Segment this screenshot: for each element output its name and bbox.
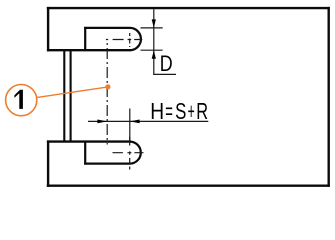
workpiece sheet left line	[63, 51, 65, 142]
extension line top (slot top edge extended)	[141, 27, 163, 29]
svg-text:+: +	[188, 98, 195, 124]
top plate left edge	[47, 7, 49, 51]
balloon digit 1	[14, 90, 23, 109]
arrow left at slot center extension	[130, 120, 140, 124]
dimension H horizontal line	[88, 120, 208, 122]
weld axis center line	[106, 40, 108, 145]
svg-text:H: H	[150, 98, 164, 124]
bottom plate top edge	[47, 140, 131, 142]
bottom plate bottom edge	[47, 184, 330, 186]
top plate top edge	[47, 7, 330, 9]
top plate bottom edge	[47, 49, 131, 51]
bottom slot horizontal center line	[113, 152, 145, 154]
right edge of C-frame	[328, 7, 330, 187]
bottom slot vertical center line	[129, 137, 131, 170]
bottom slot left edge	[84, 142, 86, 165]
leader end dot	[105, 84, 110, 89]
svg-text:R: R	[196, 100, 208, 125]
bottom slot outline	[84, 142, 141, 164]
label H=S+R	[150, 98, 208, 125]
workpiece sheet right line	[70, 51, 72, 142]
leader line	[37, 87, 108, 98]
arrow down at D top	[152, 19, 156, 28]
svg-text:S: S	[175, 100, 186, 125]
extension line bottom (plate bottom edge extended)	[141, 49, 163, 51]
top slot vertical center mark	[129, 33, 131, 47]
extension line for H at slot center	[129, 109, 131, 141]
bottom plate left edge	[47, 140, 49, 187]
top slot outline	[84, 28, 141, 50]
top slot horizontal center line	[106, 39, 142, 41]
dimension D vertical line	[153, 9, 155, 74]
arrow right at weld axis	[97, 120, 107, 124]
svg-text:=: =	[165, 99, 173, 125]
svg-text:D: D	[160, 52, 173, 76]
top slot left edge	[84, 27, 86, 50]
arrow up at D bottom	[152, 50, 156, 59]
dimension D shoulder line	[153, 73, 176, 75]
balloon circle 1	[6, 85, 37, 116]
